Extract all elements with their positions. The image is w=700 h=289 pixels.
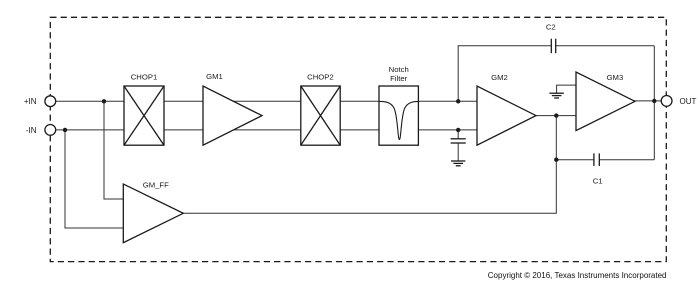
svg-text:CHOP2: CHOP2 xyxy=(307,72,334,81)
svg-text:Notch: Notch xyxy=(389,65,409,74)
svg-text:C2: C2 xyxy=(546,23,556,32)
svg-text:GM1: GM1 xyxy=(206,72,223,81)
svg-text:C1: C1 xyxy=(593,177,603,186)
svg-text:CHOP1: CHOP1 xyxy=(131,72,158,81)
svg-text:GM3: GM3 xyxy=(607,73,624,82)
svg-text:Copyright © 2016, Texas Instru: Copyright © 2016, Texas Instruments Inco… xyxy=(488,271,667,280)
svg-text:+IN: +IN xyxy=(24,97,37,106)
svg-text:Filter: Filter xyxy=(390,74,408,83)
svg-text:-IN: -IN xyxy=(26,126,37,135)
svg-text:GM2: GM2 xyxy=(491,73,508,82)
svg-text:OUT: OUT xyxy=(680,97,697,106)
svg-text:GM_FF: GM_FF xyxy=(143,180,169,189)
